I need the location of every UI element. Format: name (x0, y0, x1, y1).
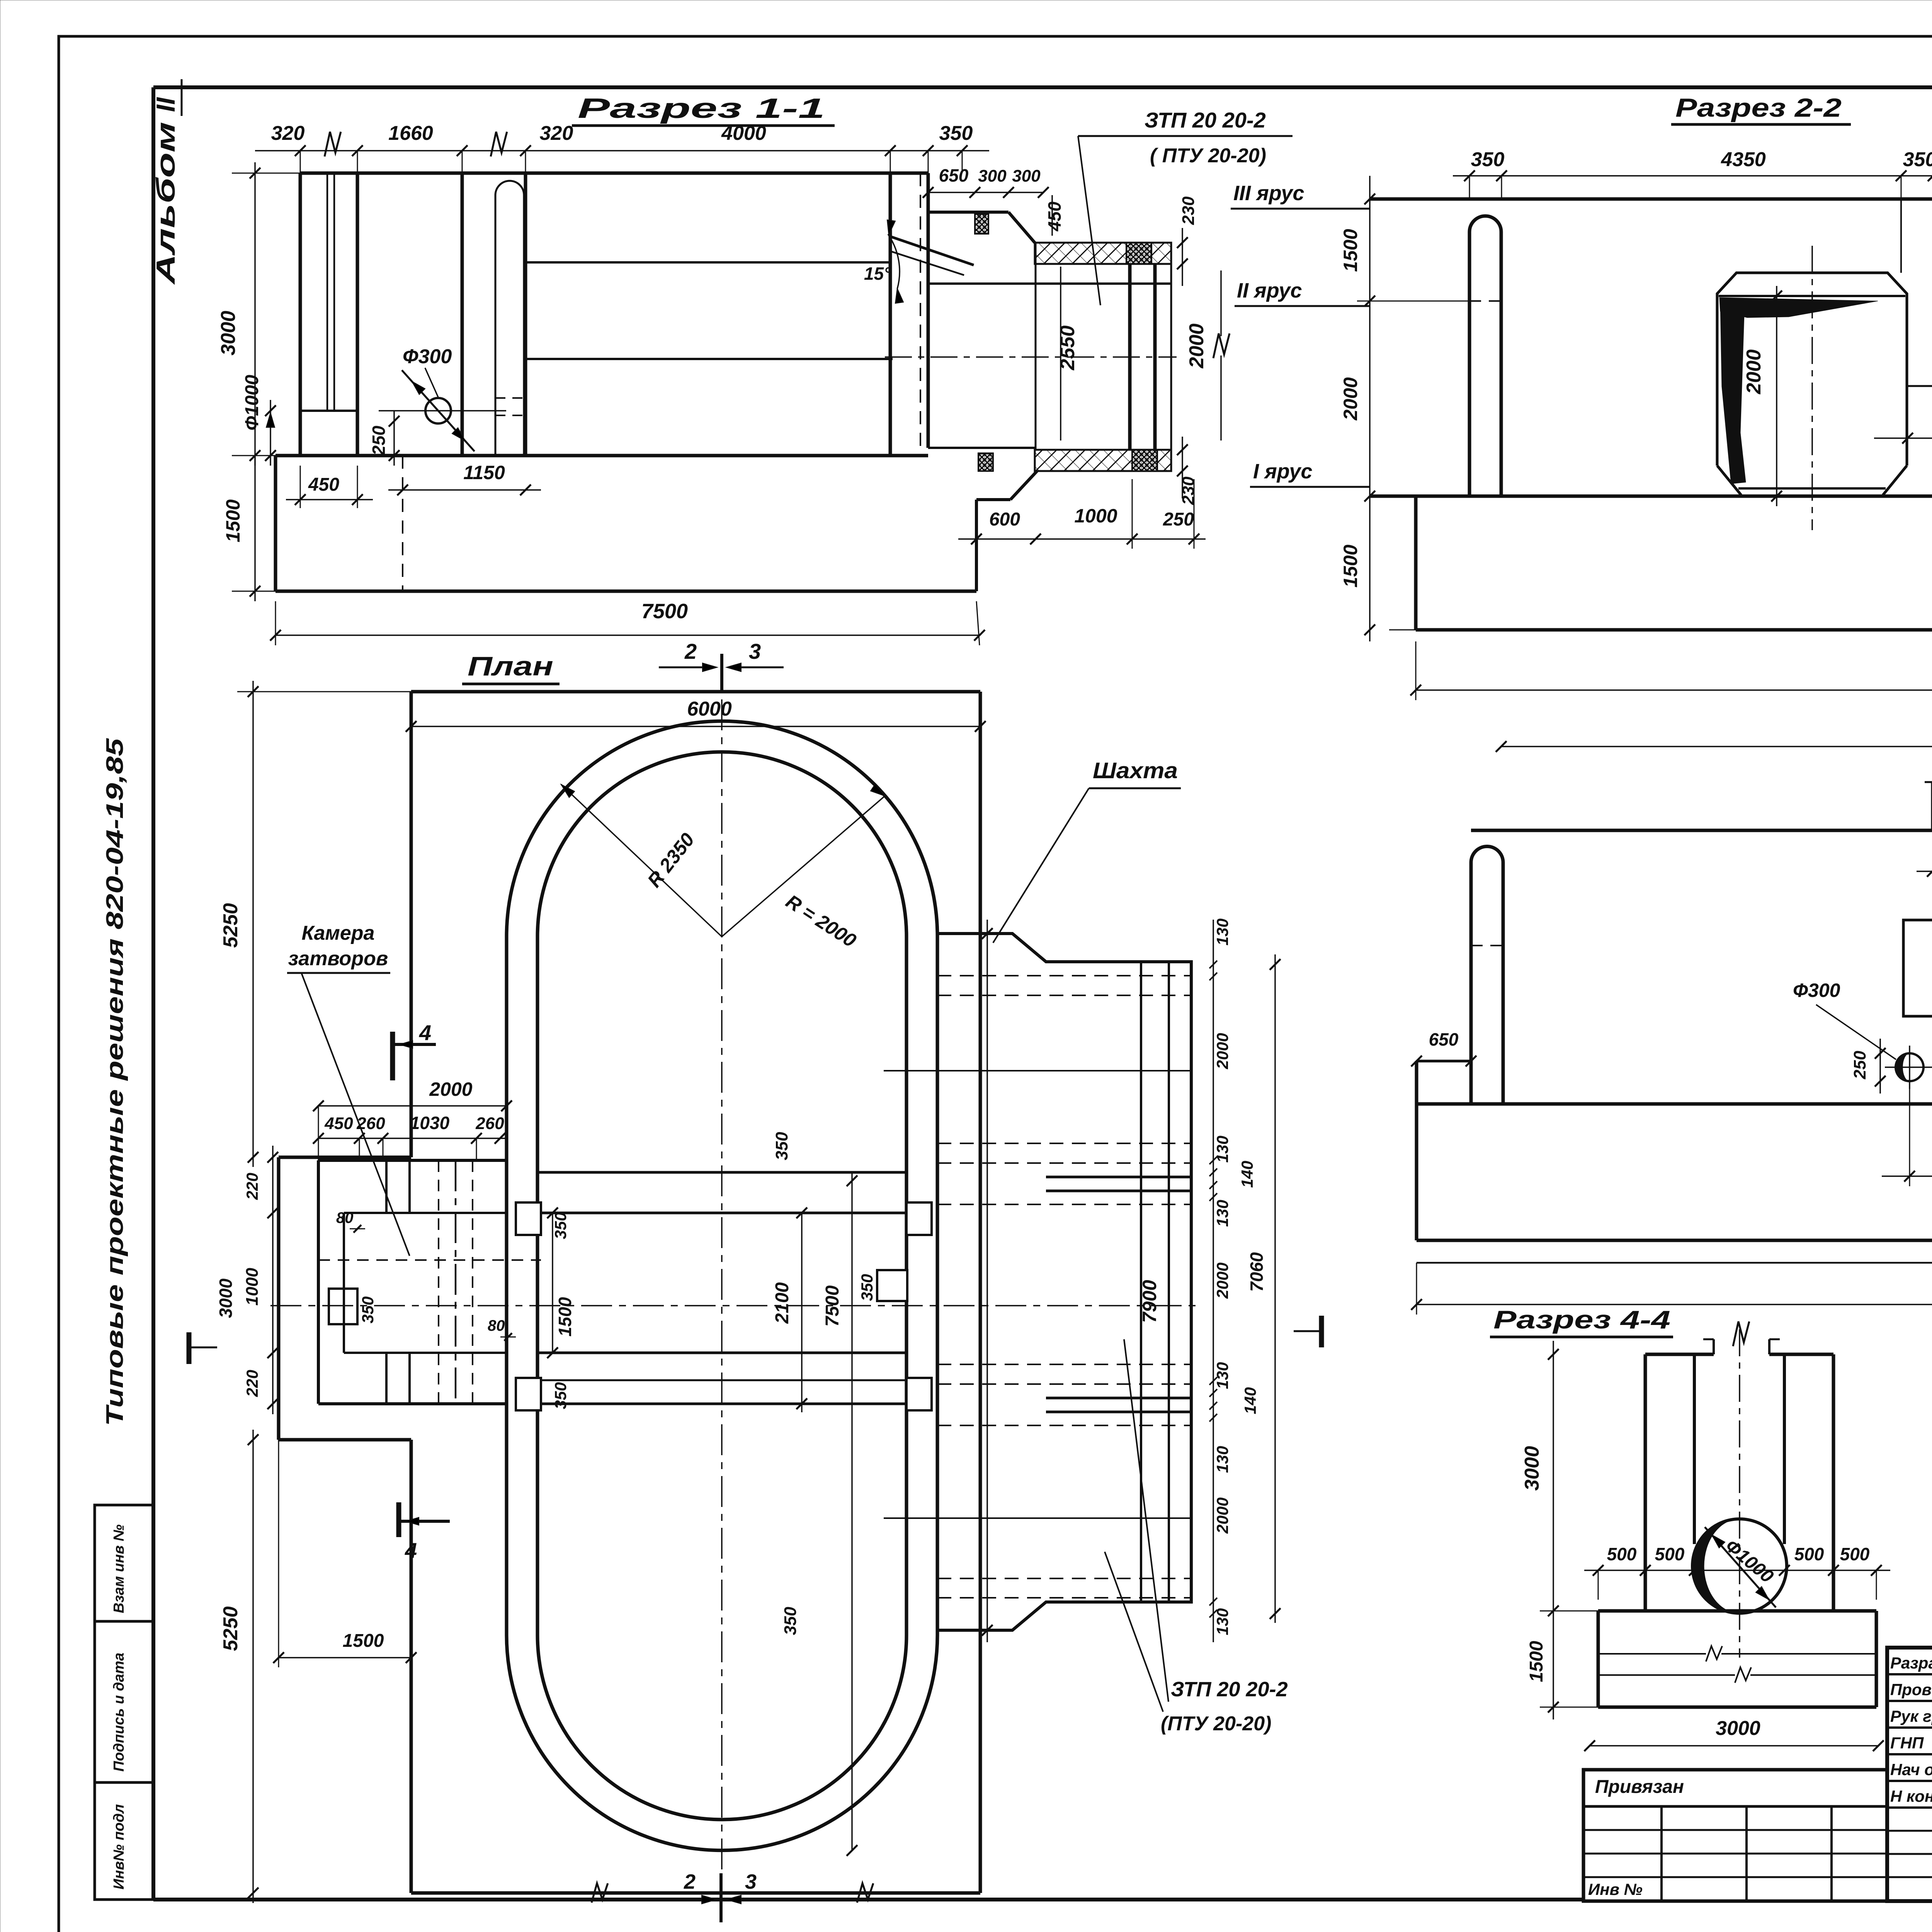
svg-text:Альбом: Альбом (151, 122, 180, 285)
svg-text:3: 3 (749, 639, 761, 663)
svg-text:7900: 7900 (1139, 1280, 1160, 1323)
svg-text:III ярус: III ярус (1233, 182, 1304, 205)
svg-text:Разрез 4-4: Разрез 4-4 (1493, 1305, 1670, 1334)
svg-text:7500: 7500 (822, 1285, 843, 1327)
svg-text:1500: 1500 (1526, 1641, 1547, 1682)
svg-text:I ярус: I ярус (1253, 460, 1312, 483)
svg-text:ЗТП 20 20-2: ЗТП 20 20-2 (1145, 108, 1266, 132)
svg-text:Типовые проектные решения: Типовые проектные решения 820-04-19,85 (102, 738, 128, 1426)
svg-text:1500: 1500 (343, 1631, 384, 1651)
svg-text:2: 2 (684, 1870, 696, 1893)
svg-text:3000: 3000 (1716, 1717, 1760, 1740)
svg-text:Инв №: Инв № (1588, 1880, 1643, 1898)
svg-text:2000: 2000 (1213, 1033, 1231, 1069)
svg-text:4: 4 (405, 1538, 417, 1563)
svg-text:3000: 3000 (217, 311, 240, 355)
svg-text:350: 350 (772, 1132, 791, 1160)
svg-text:ЗТП 20 20-2: ЗТП 20 20-2 (1171, 1678, 1288, 1701)
svg-text:130: 130 (1213, 1200, 1231, 1227)
svg-text:4: 4 (419, 1020, 431, 1045)
svg-text:500: 500 (1607, 1544, 1637, 1564)
svg-text:1030: 1030 (410, 1113, 450, 1133)
svg-text:2100: 2100 (772, 1282, 793, 1324)
svg-text:300: 300 (978, 167, 1007, 185)
svg-text:500: 500 (1655, 1544, 1685, 1564)
svg-text:230: 230 (1179, 196, 1198, 225)
svg-text:2000: 2000 (1185, 323, 1208, 369)
svg-text:5250: 5250 (219, 903, 242, 948)
svg-text:130: 130 (1213, 918, 1231, 946)
svg-text:2000: 2000 (429, 1078, 472, 1100)
svg-text:План: План (468, 651, 553, 681)
svg-text:Подпись и дата: Подпись и дата (111, 1653, 127, 1772)
svg-text:6000: 6000 (687, 698, 732, 720)
svg-text:600: 600 (989, 509, 1020, 530)
svg-text:130: 130 (1213, 1446, 1231, 1473)
svg-text:350: 350 (781, 1607, 800, 1635)
svg-text:140: 140 (1238, 1161, 1256, 1188)
svg-text:7060: 7060 (1247, 1252, 1267, 1292)
svg-text:140: 140 (1241, 1387, 1259, 1414)
svg-text:Разраб: Разраб (1890, 1654, 1932, 1672)
svg-text:1000: 1000 (243, 1268, 262, 1306)
svg-text:4000: 4000 (721, 122, 766, 145)
svg-text:130: 130 (1213, 1608, 1231, 1635)
svg-text:130: 130 (1213, 1362, 1231, 1389)
svg-text:Рук гр: Рук гр (1890, 1707, 1932, 1725)
svg-text:320: 320 (271, 122, 305, 145)
svg-text:1500: 1500 (555, 1297, 575, 1337)
svg-text:450: 450 (308, 474, 339, 495)
svg-text:130: 130 (1213, 1136, 1231, 1163)
svg-text:500: 500 (1794, 1544, 1824, 1564)
svg-text:3000: 3000 (1521, 1446, 1543, 1491)
svg-text:1500: 1500 (1340, 544, 1361, 587)
svg-text:2550: 2550 (1056, 325, 1079, 371)
svg-text:350: 350 (939, 122, 973, 145)
svg-text:Ф300: Ф300 (403, 345, 452, 368)
svg-text:500: 500 (1840, 1544, 1870, 1564)
svg-text:220: 220 (243, 1370, 261, 1397)
svg-text:затворов: затворов (288, 947, 388, 970)
svg-text:250: 250 (1850, 1051, 1869, 1080)
svg-text:350: 350 (858, 1274, 876, 1301)
svg-text:Инв№ подл: Инв№ подл (111, 1804, 127, 1889)
svg-text:II: II (151, 97, 180, 112)
svg-text:80: 80 (488, 1317, 505, 1334)
svg-text:450: 450 (1044, 201, 1065, 231)
svg-text:Взам инв №: Взам инв № (111, 1524, 127, 1613)
svg-text:5250: 5250 (219, 1606, 242, 1651)
svg-text:350: 350 (1471, 148, 1505, 171)
svg-text:Нач отд: Нач отд (1890, 1760, 1932, 1779)
svg-text:250: 250 (1163, 509, 1194, 530)
svg-text:3: 3 (745, 1870, 757, 1893)
svg-text:260: 260 (475, 1114, 504, 1133)
svg-text:1500: 1500 (222, 499, 244, 542)
svg-text:Разрез 1-1: Разрез 1-1 (578, 93, 825, 124)
svg-text:350: 350 (359, 1296, 377, 1323)
svg-text:250: 250 (369, 425, 389, 456)
svg-text:Привязан: Привязан (1595, 1777, 1684, 1797)
svg-text:2000: 2000 (1213, 1262, 1231, 1299)
svg-text:80: 80 (336, 1209, 354, 1226)
svg-text:Камера: Камера (302, 922, 375, 944)
svg-text:320: 320 (540, 122, 573, 145)
svg-text:ГНП: ГНП (1890, 1734, 1924, 1752)
svg-text:650: 650 (1429, 1029, 1459, 1049)
svg-text:Шахта: Шахта (1093, 758, 1178, 783)
svg-text:(ПТУ 20-20): (ПТУ 20-20) (1161, 1713, 1271, 1735)
svg-text:Ф300: Ф300 (1793, 980, 1840, 1001)
svg-text:( ПТУ 20-20): ( ПТУ 20-20) (1150, 145, 1266, 167)
svg-text:Н контр: Н контр (1890, 1787, 1932, 1805)
svg-text:Разрез 2-2: Разрез 2-2 (1675, 93, 1842, 122)
svg-text:350: 350 (551, 1382, 570, 1409)
svg-text:220: 220 (243, 1173, 261, 1200)
svg-text:15°: 15° (864, 264, 891, 284)
svg-text:Пров.: Пров. (1890, 1680, 1932, 1699)
svg-text:650: 650 (939, 165, 969, 185)
svg-text:350: 350 (1903, 148, 1932, 171)
svg-text:1660: 1660 (388, 122, 433, 145)
svg-text:1500: 1500 (1340, 229, 1361, 272)
svg-text:2000: 2000 (1340, 377, 1361, 420)
svg-text:7500: 7500 (641, 600, 688, 623)
svg-text:3000: 3000 (216, 1278, 236, 1318)
svg-text:1000: 1000 (1074, 505, 1117, 527)
svg-text:350: 350 (551, 1212, 570, 1239)
svg-text:1150: 1150 (463, 462, 505, 483)
svg-text:2000: 2000 (1213, 1497, 1231, 1534)
svg-text:300: 300 (1012, 167, 1041, 185)
svg-text:2000: 2000 (1743, 349, 1765, 395)
svg-text:4350: 4350 (1721, 148, 1766, 171)
svg-text:II ярус: II ярус (1237, 279, 1302, 302)
svg-text:2: 2 (684, 639, 697, 663)
svg-text:450: 450 (324, 1114, 353, 1133)
svg-text:Ф1000: Ф1000 (242, 375, 262, 431)
